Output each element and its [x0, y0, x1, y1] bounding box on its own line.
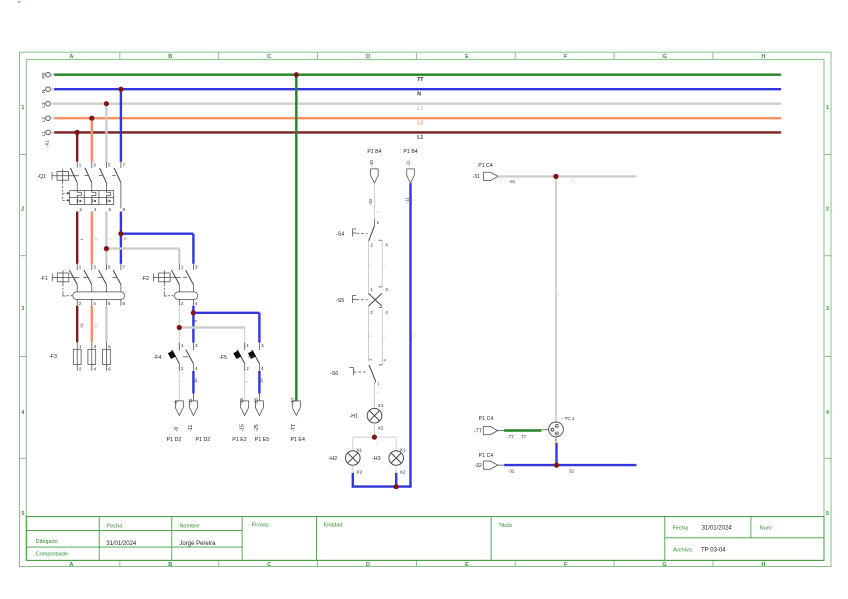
- svg-text:H: H: [761, 54, 765, 60]
- svg-text:-25: -25: [254, 398, 259, 405]
- svg-text:L1: L1: [41, 131, 46, 137]
- svg-text:X1: X1: [378, 403, 384, 408]
- svg-text:-10: -10: [369, 160, 374, 167]
- svg-text:X2: X2: [356, 470, 362, 475]
- svg-text:-Q1: -Q1: [37, 174, 46, 180]
- svg-text:-31: -31: [509, 179, 516, 184]
- svg-text:D: D: [366, 54, 370, 60]
- svg-text:Titulo: Titulo: [498, 523, 511, 529]
- svg-text:-11: -11: [188, 424, 194, 431]
- svg-text:3: 3: [21, 306, 24, 312]
- svg-text:A: A: [69, 54, 73, 60]
- svg-text:N: N: [123, 237, 128, 240]
- svg-text:-11: -11: [405, 197, 410, 204]
- svg-text:5: 5: [21, 511, 24, 517]
- svg-text:31/01/2024: 31/01/2024: [106, 541, 137, 547]
- svg-text:Comprobado: Comprobado: [36, 552, 68, 558]
- svg-text:P1 D2: P1 D2: [196, 437, 211, 443]
- svg-text:4: 4: [826, 410, 829, 416]
- svg-text:G: G: [662, 54, 666, 60]
- svg-text:-H3: -H3: [372, 456, 381, 462]
- svg-text:-10: -10: [368, 198, 373, 205]
- svg-text:-25: -25: [254, 424, 260, 431]
- svg-text:TT: TT: [521, 435, 527, 440]
- svg-text:-15: -15: [239, 398, 244, 405]
- svg-text:1: 1: [826, 105, 829, 111]
- svg-text:-9: -9: [174, 400, 179, 405]
- svg-text:Jorge Pereira: Jorge Pereira: [179, 541, 216, 547]
- svg-text:2: 2: [21, 206, 24, 212]
- svg-text:1: 1: [21, 105, 24, 111]
- svg-text:P1 C4: P1 C4: [479, 416, 494, 422]
- svg-text:P1 B4: P1 B4: [367, 149, 381, 155]
- svg-text:TT: TT: [417, 77, 423, 83]
- svg-text:-S5: -S5: [336, 298, 344, 304]
- svg-text:X1: X1: [400, 447, 406, 452]
- svg-text:X1: X1: [356, 447, 362, 452]
- svg-text:21: 21: [368, 262, 373, 267]
- svg-text:Firmas: Firmas: [252, 523, 269, 529]
- svg-text:-F2: -F2: [141, 276, 149, 282]
- svg-text:-S6: -S6: [330, 371, 338, 377]
- svg-text:-11: -11: [188, 398, 193, 405]
- svg-text:5: 5: [826, 511, 829, 517]
- svg-text:62: 62: [93, 322, 98, 327]
- svg-text:B: B: [168, 54, 172, 60]
- svg-text:-32: -32: [475, 463, 482, 469]
- svg-text:L1: L1: [417, 135, 423, 141]
- svg-text:PE: PE: [41, 72, 46, 78]
- svg-text:F: F: [564, 54, 568, 60]
- svg-text:Dibujado: Dibujado: [36, 539, 58, 545]
- svg-text:10: 10: [258, 378, 263, 383]
- svg-text:-F3: -F3: [49, 354, 57, 360]
- svg-text:X2: X2: [378, 426, 384, 431]
- svg-text:-TT: -TT: [474, 428, 482, 434]
- svg-text:A: A: [69, 562, 73, 568]
- svg-text:61: 61: [79, 322, 84, 327]
- svg-text:L3: L3: [41, 102, 46, 108]
- svg-text:C: C: [267, 562, 271, 568]
- svg-text:P1 E2: P1 E2: [232, 437, 246, 443]
- svg-text:4: 4: [21, 410, 24, 416]
- svg-text:Fecha: Fecha: [107, 524, 123, 530]
- svg-text:-15: -15: [240, 424, 246, 431]
- svg-text:Nombre: Nombre: [179, 524, 199, 530]
- svg-text:-11: -11: [405, 160, 410, 167]
- svg-text:H: H: [761, 562, 765, 568]
- svg-text:3: 3: [826, 306, 829, 312]
- svg-text:N: N: [41, 90, 46, 93]
- svg-text:-F5: -F5: [219, 355, 227, 361]
- svg-text:31/01/2024: 31/01/2024: [702, 525, 733, 531]
- svg-text:Archivo:: Archivo:: [673, 548, 694, 554]
- svg-text:-H1: -H1: [350, 414, 359, 420]
- svg-text:Fecha: Fecha: [673, 525, 689, 531]
- svg-text:32: 32: [569, 468, 574, 473]
- svg-text:- TC 1: - TC 1: [562, 416, 575, 421]
- svg-text:10: 10: [193, 378, 198, 383]
- svg-text:13: 13: [411, 333, 416, 338]
- svg-text:B: B: [168, 562, 172, 568]
- svg-text:E: E: [465, 54, 469, 60]
- svg-text:D: D: [366, 562, 370, 568]
- svg-text:G: G: [662, 562, 666, 568]
- svg-text:-S4: -S4: [336, 232, 344, 238]
- svg-text:P1 E4: P1 E4: [290, 437, 304, 443]
- svg-text:12: 12: [368, 332, 373, 337]
- svg-text:-32: -32: [508, 468, 515, 473]
- svg-text:L2: L2: [417, 120, 423, 126]
- svg-text:Entidad: Entidad: [324, 523, 343, 529]
- svg-text:E: E: [465, 562, 469, 568]
- svg-text:31: 31: [570, 178, 576, 184]
- svg-text:Num:: Num:: [760, 525, 774, 531]
- svg-text:X2: X2: [400, 470, 406, 475]
- svg-text:P1 C4: P1 C4: [478, 163, 493, 169]
- svg-text:L2: L2: [41, 117, 46, 123]
- svg-text:L3: L3: [417, 106, 423, 112]
- svg-text:-TT: -TT: [291, 397, 296, 404]
- svg-text:-X1: -X1: [45, 140, 51, 148]
- svg-text:P1 E5: P1 E5: [255, 437, 269, 443]
- svg-text:P1 C4: P1 C4: [479, 453, 494, 459]
- svg-text:TP 03-04: TP 03-04: [701, 548, 726, 554]
- svg-text:-TT: -TT: [291, 424, 297, 432]
- svg-text:-F1: -F1: [40, 276, 48, 282]
- svg-text:-H2: -H2: [329, 456, 338, 462]
- svg-text:F: F: [564, 562, 568, 568]
- svg-text:-F4: -F4: [154, 355, 162, 361]
- svg-text:P1 D2: P1 D2: [167, 437, 182, 443]
- svg-text:C: C: [267, 54, 271, 60]
- svg-text:N: N: [417, 91, 421, 97]
- svg-text:P1 B4: P1 B4: [403, 149, 417, 155]
- svg-text:-TT: -TT: [507, 435, 514, 440]
- svg-text:-31: -31: [473, 174, 480, 180]
- svg-text:-9: -9: [174, 427, 180, 432]
- svg-text:31: 31: [555, 291, 560, 296]
- svg-text:2: 2: [826, 206, 829, 212]
